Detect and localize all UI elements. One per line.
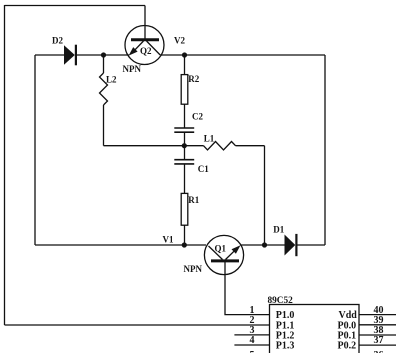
inductor L2 bbox=[100, 55, 108, 146]
svg-text:R1: R1 bbox=[188, 195, 199, 205]
wire R1 bottom lead bbox=[184, 225, 186, 245]
node junction dot at L2 top bbox=[101, 52, 106, 57]
svg-text:89C52: 89C52 bbox=[268, 296, 294, 306]
resistor R1 bbox=[181, 193, 188, 225]
wire Q2 base lead bbox=[144, 6, 146, 39]
wire left branch vertical D2 to V1 row bbox=[34, 55, 36, 245]
diode D2 bbox=[64, 45, 77, 66]
node V2 junction dot bbox=[182, 52, 187, 57]
svg-text:NPN: NPN bbox=[123, 64, 142, 74]
wire pin 38 P0.1 bbox=[359, 334, 396, 336]
capacitor C2 bbox=[174, 128, 194, 132]
wire L1 right lead bbox=[236, 145, 265, 147]
node junction dot L1 at D1 row bbox=[262, 242, 267, 247]
svg-text:P1.3: P1.3 bbox=[276, 341, 295, 352]
wire pin 39 P0.0 bbox=[359, 324, 396, 326]
wire top from left corner to Q2 base bbox=[5, 5, 146, 7]
svg-text:NPN: NPN bbox=[184, 264, 203, 274]
wire pin 40 Vdd bbox=[359, 314, 396, 316]
wire pin 4 stub P1.3 bbox=[234, 344, 269, 346]
transistor Q2 bbox=[125, 26, 164, 65]
wire pin 37 P0.2 bbox=[359, 344, 396, 346]
svg-text:C2: C2 bbox=[192, 112, 203, 122]
svg-text:L2: L2 bbox=[106, 74, 117, 84]
svg-text:V1: V1 bbox=[163, 234, 174, 244]
wire D2 cathode to Q2 emitter bbox=[77, 54, 129, 56]
IC U1 89C52 body bbox=[270, 305, 360, 353]
wire Q1 base lead down and to chip pin1 bbox=[225, 262, 270, 315]
wire R2 to C2 bbox=[184, 104, 186, 128]
wire left outer vertical bbox=[4, 5, 6, 325]
svg-text:R2: R2 bbox=[188, 74, 199, 84]
resistor R2 bbox=[181, 75, 188, 105]
wire Q1 emitter to D1 bbox=[241, 244, 285, 246]
wire junction row horizontal from L2 to L1 bbox=[104, 145, 204, 147]
node junction dot C1 C2 L1 bbox=[182, 143, 187, 148]
wire pin 3 stub P1.2 bbox=[234, 334, 269, 336]
wire R2 top lead from V2 bbox=[184, 55, 186, 75]
svg-text:D2: D2 bbox=[52, 35, 63, 45]
transistor Q1 bbox=[204, 235, 243, 274]
wire bottom from left corner to chip pin2 P1.1 bbox=[5, 324, 270, 326]
svg-text:37: 37 bbox=[374, 335, 384, 346]
wire Q2 collector to right corner bbox=[160, 54, 325, 56]
svg-text:V2: V2 bbox=[174, 35, 185, 45]
wire V1 row horizontal bbox=[35, 244, 206, 246]
svg-text:C1: C1 bbox=[198, 164, 209, 174]
wire D1 cathode to right corner bbox=[298, 244, 326, 246]
svg-text:L1: L1 bbox=[204, 134, 215, 144]
diode D1 bbox=[285, 234, 298, 256]
wire C2 bottom to junction bbox=[184, 132, 186, 146]
node junction dot R1 at V1 row bbox=[182, 242, 187, 247]
wire L1 down to D1 row bbox=[264, 146, 266, 245]
wire D2 anode side bbox=[35, 54, 64, 56]
inductor L1 bbox=[204, 142, 236, 150]
svg-text:P0.2: P0.2 bbox=[338, 341, 357, 352]
svg-text:D1: D1 bbox=[273, 225, 284, 235]
svg-text:4: 4 bbox=[250, 335, 255, 346]
capacitor C1 bbox=[174, 146, 194, 194]
wire right outer vertical bbox=[324, 55, 326, 245]
svg-text:Q2: Q2 bbox=[140, 46, 152, 56]
svg-text:Q1: Q1 bbox=[215, 244, 227, 254]
